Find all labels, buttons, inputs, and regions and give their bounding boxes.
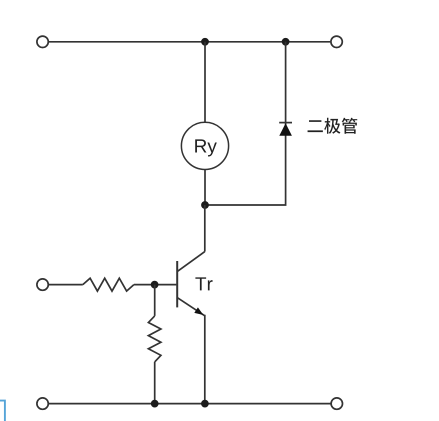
- wire emitter to bottom rail: [204, 315, 206, 404]
- wire Ry to collector node: [204, 170, 206, 206]
- junction node D (base node): [151, 281, 159, 289]
- transistor Q1 Tr: [177, 252, 205, 316]
- junction node B (diode / top rail): [282, 38, 290, 46]
- wire R1 to base node: [134, 284, 155, 286]
- label 二极管 (diode): [308, 118, 358, 134]
- wire collector: [204, 205, 206, 252]
- wire bottom rail: [49, 403, 331, 405]
- wire base node to Tr base: [155, 284, 177, 286]
- terminal T3 (base input, left): [37, 279, 48, 290]
- terminal T4 (bottom left): [37, 398, 48, 409]
- terminal T1 (top left): [37, 36, 48, 47]
- terminal T2 (top right): [331, 36, 342, 47]
- label Ry: [195, 139, 217, 156]
- wire base node to R2: [154, 285, 156, 316]
- label Tr: [195, 277, 212, 290]
- terminal T5 (bottom right): [331, 398, 342, 409]
- wire top rail to Ry: [204, 42, 206, 123]
- diode D1 (flyback): [279, 123, 292, 136]
- junction node A (Ry / top rail): [201, 38, 209, 46]
- wire base input to R1: [49, 284, 83, 286]
- junction node F (emitter / bottom rail): [201, 400, 209, 408]
- wire R2 to bottom rail: [154, 362, 156, 404]
- resistor R1 (base series): [83, 278, 134, 291]
- wire top rail: [49, 41, 330, 43]
- wire diode branch: [205, 42, 286, 205]
- resistor R2 (base-emitter): [148, 316, 161, 362]
- junction node C (collector node): [201, 201, 209, 209]
- junction node E (R2 / bottom rail): [151, 400, 159, 408]
- relay coil Ry: [181, 122, 228, 169]
